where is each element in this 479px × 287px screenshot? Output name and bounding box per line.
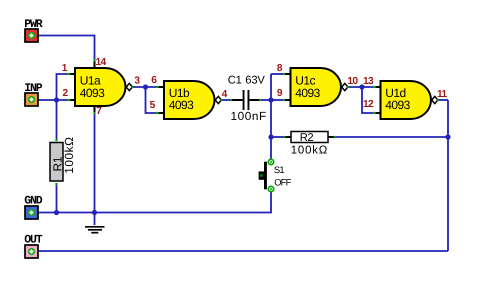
svg-text:4093: 4093 <box>385 98 410 112</box>
junction GND rail at ground symbol <box>92 210 97 215</box>
wire U1a pin1 riser <box>57 74 69 100</box>
svg-text:63V: 63V <box>245 74 265 86</box>
pin stub U1b pin6 <box>159 86 165 88</box>
wire U1c pin9 <box>271 99 283 101</box>
svg-text:100nF: 100nF <box>231 109 267 123</box>
junction node INP/R1 <box>54 97 59 102</box>
pin stub U1a pin7 <box>94 106 96 113</box>
junction node U1a out <box>143 84 148 89</box>
junction node B at C1 <box>268 97 273 102</box>
connection mark U1a pin1 <box>68 73 70 75</box>
port INP <box>24 82 42 106</box>
pin stub U1c pin8 <box>285 73 291 75</box>
connection mark C1 right pin <box>259 99 261 101</box>
svg-text:C1: C1 <box>228 74 242 86</box>
svg-text:4093: 4093 <box>169 98 194 112</box>
connection mark U1a pin3 output <box>132 86 134 88</box>
connection mark U1c pin9 <box>283 99 285 101</box>
junction GND port node <box>54 210 59 215</box>
connection mark U1b pin6 <box>156 86 158 88</box>
svg-text:R2: R2 <box>300 132 314 144</box>
pin stub U1b pin5 <box>159 112 165 114</box>
connection mark U1b pin4 output <box>221 99 223 101</box>
gate U1a (NAND 4093) <box>75 68 132 106</box>
wire C1 to node B <box>261 99 272 101</box>
connection mark U1d pin12 <box>373 112 375 114</box>
pin stub U1d pin12 <box>376 112 382 114</box>
wire U1d out to node C <box>436 99 448 101</box>
gate U1c (NAND 4093) <box>291 68 348 106</box>
svg-text:OFF: OFF <box>274 176 291 187</box>
wire U1c out to U1d pin13 <box>346 86 373 88</box>
ground <box>85 227 105 233</box>
pin stub U1a pin1 <box>70 73 76 75</box>
resistor R1 <box>50 136 76 181</box>
connection mark U1c pin8 <box>283 73 285 75</box>
connection mark R2 right pin <box>333 136 335 138</box>
resistor R2 <box>286 132 334 157</box>
wire U1b out to C1 <box>220 99 231 101</box>
connection mark U1b pin5 <box>156 112 158 114</box>
wire U1a pin7 drop <box>94 114 96 213</box>
port GND <box>24 195 42 220</box>
svg-text:10: 10 <box>347 76 358 87</box>
connection mark R2 left pin <box>283 136 285 138</box>
capacitor C1 <box>228 74 267 122</box>
junction node C at R2 <box>445 134 450 139</box>
pin stub U1a pin2 <box>70 99 76 101</box>
pin stub U1a pin14 <box>94 62 96 69</box>
pin stub U1c pin9 <box>285 99 291 101</box>
connection mark U1a pin2 <box>68 99 70 101</box>
wire U1b pin5 riser <box>146 87 157 113</box>
port OUT <box>24 233 42 258</box>
wire node B vertical to S1 top <box>270 74 272 159</box>
wire U1c pin8 <box>271 73 283 75</box>
svg-text:13: 13 <box>363 76 374 87</box>
pin stub U1d pin13 <box>376 86 382 88</box>
junction node B at R2 <box>268 134 273 139</box>
connection mark U1d pin11 output <box>437 99 439 101</box>
junction node U1c out <box>359 84 364 89</box>
connection mark U1c pin10 output <box>347 86 349 88</box>
gate U1b (NAND 4093) <box>164 81 221 119</box>
switch S1 (pushbutton, OFF) <box>259 159 292 191</box>
wire R2 right to node C <box>335 136 448 138</box>
svg-text:14: 14 <box>96 57 107 68</box>
connection mark U1a pin7 <box>93 112 95 114</box>
svg-text:11: 11 <box>437 89 447 100</box>
connection mark U1d pin13 <box>373 86 375 88</box>
svg-text:100kΩ: 100kΩ <box>291 144 328 156</box>
connection mark R1 bottom pin <box>55 183 57 185</box>
wire GND rail to S1 bottom <box>38 192 271 213</box>
svg-text:4093: 4093 <box>80 86 105 100</box>
wire node C vertical <box>447 100 449 251</box>
wire U1a out to U1b pin6 <box>131 86 157 88</box>
wire node B to R2 left <box>271 136 284 138</box>
wire U1d pin12 riser <box>362 87 373 113</box>
svg-text:4093: 4093 <box>295 86 320 100</box>
wire PWR to U1a pin14 <box>38 36 95 60</box>
gate U1d (NAND 4093) <box>381 81 438 119</box>
svg-text:S1: S1 <box>274 164 284 175</box>
wire ground symbol stub <box>94 213 96 226</box>
connection mark C1 left pin <box>230 99 232 101</box>
svg-text:12: 12 <box>363 99 374 110</box>
connection mark R1 top pin <box>55 139 57 141</box>
wire INP to U1a pin2 <box>38 99 68 101</box>
wire OUT rail <box>38 250 448 252</box>
port PWR <box>24 18 42 42</box>
wire R1 bottom to GND rail <box>56 185 58 213</box>
wire INP node to R1 top <box>56 100 58 140</box>
connection mark U1a pin14 <box>93 59 95 61</box>
svg-text:100kΩ: 100kΩ <box>62 136 76 173</box>
